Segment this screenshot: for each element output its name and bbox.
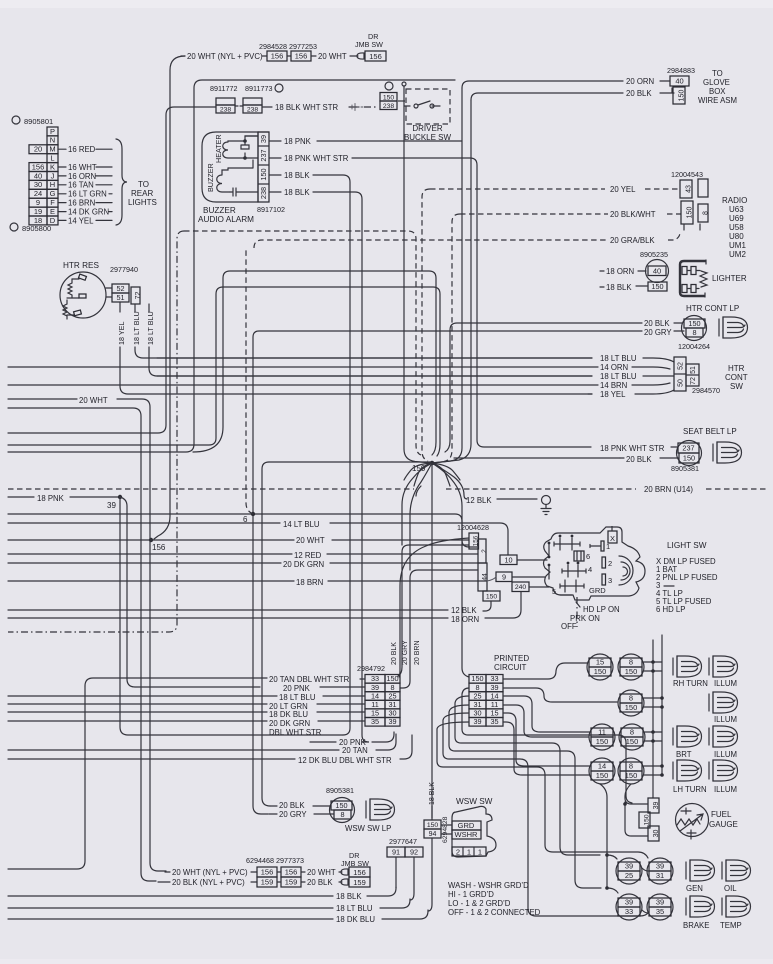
wire 20 ORN to glove box — [462, 81, 623, 88]
lamp socket GEN — [686, 860, 715, 881]
heater coil — [223, 141, 245, 158]
svg-text:HTR RES: HTR RES — [63, 261, 99, 270]
svg-text:12004264: 12004264 — [678, 342, 710, 351]
svg-text:DRIVER: DRIVER — [412, 124, 442, 133]
gauge lamp illum 8/150 row2 — [618, 690, 644, 716]
big harness outline left — [8, 80, 455, 452]
gauge lamp BRT 11/150 — [589, 724, 615, 750]
buzzer audio alarm box — [202, 132, 258, 202]
svg-text:150: 150 — [626, 737, 639, 746]
svg-text:18 PNK: 18 PNK — [284, 137, 312, 146]
lamp socket BRT — [673, 726, 702, 747]
svg-text:K: K — [50, 162, 55, 171]
wire 16 TAN to rear lights — [58, 184, 66, 186]
svg-text:8: 8 — [629, 762, 633, 771]
row 523 14 LT BLU — [8, 522, 280, 524]
light switch lever knob — [619, 556, 633, 585]
svg-text:GEN: GEN — [686, 884, 703, 893]
svg-text:240: 240 — [515, 584, 527, 591]
svg-text:16 ORN: 16 ORN — [68, 172, 96, 181]
svg-text:8: 8 — [629, 658, 633, 667]
svg-text:18 DK BLU: 18 DK BLU — [269, 710, 308, 719]
svg-text:40: 40 — [653, 266, 661, 275]
connector box 8 — [698, 204, 708, 222]
svg-text:39: 39 — [388, 717, 396, 726]
lamp socket ILLUM row2 — [709, 692, 738, 713]
svg-text:14 ORN: 14 ORN — [600, 363, 628, 372]
terminal 5 bar — [560, 580, 584, 595]
connector box 43 — [680, 180, 692, 198]
svg-text:18 LT BLU: 18 LT BLU — [132, 311, 141, 345]
lamp socket BRAKE — [686, 896, 715, 917]
gauge lamp illum 8/150 row1 — [618, 654, 644, 680]
svg-text:156: 156 — [473, 535, 480, 546]
svg-text:8905800: 8905800 — [22, 224, 51, 233]
wires from 91/92 down to bottom rows — [396, 857, 414, 900]
wires 18 YEL / LT BLU from htr res — [119, 302, 121, 312]
svg-text:1: 1 — [478, 848, 482, 857]
svg-text:14 LT BLU: 14 LT BLU — [283, 520, 320, 529]
svg-text:30: 30 — [34, 180, 42, 189]
svg-text:20 BLK/WHT: 20 BLK/WHT — [610, 210, 656, 219]
svg-text:20 BLK: 20 BLK — [279, 801, 305, 810]
ground symbol — [542, 496, 551, 505]
svg-text:CIRCUIT: CIRCUIT — [494, 663, 527, 672]
svg-text:238: 238 — [383, 103, 395, 110]
connector box 52 — [112, 284, 129, 293]
svg-text:18 LT BLU: 18 LT BLU — [600, 372, 637, 381]
svg-text:91: 91 — [392, 848, 400, 857]
svg-text:39: 39 — [625, 862, 633, 871]
svg-text:M: M — [49, 145, 55, 154]
svg-text:20 WHT: 20 WHT — [296, 536, 325, 545]
terminal X — [608, 531, 617, 543]
svg-text:150: 150 — [594, 667, 607, 676]
svg-text:RADIO: RADIO — [722, 196, 747, 205]
wire 20 YEL dashed — [430, 188, 605, 190]
svg-text:8917102: 8917102 — [257, 205, 285, 214]
2 1 1 boxes — [452, 847, 486, 856]
svg-text:94: 94 — [429, 831, 437, 838]
tell-tale TEMP 39/35 — [647, 894, 673, 920]
svg-text:20 BLK: 20 BLK — [626, 89, 652, 98]
svg-text:156: 156 — [353, 868, 366, 877]
svg-text:18 ORN: 18 ORN — [451, 615, 479, 624]
connector box 92 — [405, 847, 423, 857]
connector box 156 in-line — [267, 51, 287, 61]
fuel gauge — [676, 804, 709, 837]
svg-text:8911772: 8911772 — [210, 84, 237, 93]
connector box 39 — [648, 798, 659, 813]
connector box 159 — [281, 877, 301, 887]
svg-text:19: 19 — [34, 207, 42, 216]
wire 20 WHT vertical (top row to 156 junction) — [154, 56, 185, 539]
connector box 8 — [334, 810, 351, 819]
20 YEL / BLKWHT verticals to junction — [422, 189, 430, 461]
svg-text:WSW SW: WSW SW — [456, 797, 493, 806]
svg-text:5: 5 — [552, 587, 556, 596]
svg-text:31: 31 — [656, 871, 664, 880]
wire 16 ORN to rear lights — [58, 175, 66, 177]
svg-text:16 TAN: 16 TAN — [68, 181, 94, 190]
svg-text:18 LT BLU: 18 LT BLU — [336, 904, 373, 913]
svg-text:J: J — [51, 171, 55, 180]
svg-text:156: 156 — [369, 52, 382, 61]
htr cont lp connector circle — [682, 316, 707, 341]
svg-text:150: 150 — [427, 822, 439, 829]
svg-text:ILLUM: ILLUM — [714, 750, 737, 759]
svg-text:39: 39 — [653, 802, 660, 810]
connector box 156 — [281, 867, 301, 877]
terminal 6 — [574, 551, 584, 561]
svg-text:WASH - WSHR GRD’D: WASH - WSHR GRD’D — [448, 881, 529, 890]
wire 16 WHT to rear lights — [58, 166, 66, 168]
svg-text:1: 1 — [467, 848, 471, 857]
svg-text:237: 237 — [259, 149, 268, 161]
svg-text:18 PNK WHT STR: 18 PNK WHT STR — [600, 444, 665, 453]
svg-text:X: X — [610, 534, 615, 543]
svg-text:BUZZER: BUZZER — [206, 163, 215, 192]
lamp feed bus — [653, 635, 662, 798]
svg-text:25: 25 — [625, 871, 633, 880]
wire 14 YEL to rear lights — [58, 219, 66, 221]
svg-text:20 YEL: 20 YEL — [610, 185, 636, 194]
connector 238 (8911772) — [216, 98, 235, 105]
dash wire top row 231 — [184, 231, 421, 455]
connector box 237 — [678, 443, 699, 453]
svg-text:GRD: GRD — [458, 821, 475, 830]
connector box 40 — [670, 76, 689, 86]
svg-text:AUDIO ALARM: AUDIO ALARM — [198, 215, 254, 224]
svg-text:FUEL: FUEL — [711, 810, 732, 819]
svg-text:DBL WHT STR: DBL WHT STR — [269, 728, 322, 737]
verticals 20 ORN / 20 BLK down to junction — [432, 88, 462, 463]
svg-text:2: 2 — [456, 848, 460, 857]
svg-text:20 WHT: 20 WHT — [79, 396, 108, 405]
lamp socket LH TURN — [673, 760, 702, 781]
svg-text:8: 8 — [629, 694, 633, 703]
lighter connector circle — [646, 260, 669, 283]
tell-tale GEN 39/25 — [616, 858, 642, 884]
svg-text:12 DK BLU DBL WHT STR: 12 DK BLU DBL WHT STR — [298, 756, 392, 765]
connector box 150 — [483, 591, 500, 601]
lamp socket WSW SW LP — [366, 799, 395, 820]
terminal 3 — [602, 574, 606, 585]
wire 20 GRA/BLK dashed — [254, 240, 606, 248]
seat belt connector circle — [677, 441, 702, 466]
svg-text:20 WHT (NYL + PVC): 20 WHT (NYL + PVC) — [172, 868, 248, 877]
svg-text:16 LT GRN: 16 LT GRN — [68, 190, 107, 199]
svg-text:150: 150 — [686, 207, 693, 219]
rear lights bulkhead connector — [47, 127, 58, 136]
connector box 240 — [512, 582, 529, 592]
wires pc connector to lamps — [503, 663, 587, 679]
wsw sw body — [452, 806, 496, 857]
svg-text:SW: SW — [730, 382, 743, 391]
connector box 72 — [131, 287, 140, 304]
svg-text:8905381: 8905381 — [671, 464, 699, 473]
svg-text:20 GRA/BLK: 20 GRA/BLK — [610, 236, 655, 245]
lamp socket SEAT BELT LP — [713, 442, 742, 463]
svg-text:SEAT BELT LP: SEAT BELT LP — [683, 427, 737, 436]
svg-text:2977647: 2977647 — [389, 837, 417, 846]
svg-text:18 BLK: 18 BLK — [606, 283, 632, 292]
GRD / WSHR boxes — [452, 821, 481, 830]
svg-text:150: 150 — [683, 454, 695, 463]
svg-text:238: 238 — [247, 107, 259, 114]
svg-text:F: F — [50, 198, 55, 207]
row 563 20 DK GRN — [8, 562, 281, 564]
svg-text:6294828: 6294828 — [442, 816, 449, 843]
connector box 150 — [679, 453, 699, 463]
svg-text:9: 9 — [502, 572, 506, 581]
svg-text:U58: U58 — [729, 223, 744, 232]
svg-text:2977940: 2977940 — [110, 265, 138, 274]
row 540 20 WHT — [8, 539, 294, 541]
svg-text:18 LT BLU: 18 LT BLU — [279, 693, 316, 702]
svg-text:35: 35 — [490, 717, 498, 726]
svg-text:159: 159 — [353, 878, 366, 887]
svg-text:BOX: BOX — [709, 87, 726, 96]
wires to 39/150/30 — [625, 784, 648, 836]
svg-text:18 YEL: 18 YEL — [117, 322, 126, 345]
svg-text:156: 156 — [261, 868, 274, 877]
connector box 150 — [424, 820, 441, 829]
row 408 — [8, 408, 156, 881]
svg-text:39: 39 — [473, 717, 481, 726]
svg-text:24: 24 — [34, 189, 42, 198]
svg-text:20 ORN: 20 ORN — [626, 77, 654, 86]
wire to lighter loop (row 445 / 287) — [8, 287, 440, 456]
svg-text:18 DK BLU: 18 DK BLU — [336, 915, 375, 924]
connector 8905801 terminal — [12, 116, 20, 124]
buzzer coil — [217, 168, 230, 192]
svg-text:20 BLK: 20 BLK — [644, 319, 670, 328]
svg-text:18 YEL: 18 YEL — [600, 390, 626, 399]
lighter element — [680, 261, 706, 296]
printed circuit connector — [469, 675, 486, 684]
svg-text:LIGHT SW: LIGHT SW — [667, 541, 707, 550]
svg-text:ILLUM: ILLUM — [714, 679, 737, 688]
svg-text:6294468 2977373: 6294468 2977373 — [246, 856, 304, 865]
dash-dot wire x=177 — [8, 231, 184, 632]
svg-text:43: 43 — [685, 185, 692, 193]
svg-text:52: 52 — [116, 284, 124, 293]
wsw sw lp connector circle — [330, 798, 355, 823]
row 554 12 RED — [8, 553, 292, 555]
gauge lamp illum 8/150 row4 — [618, 758, 644, 784]
svg-text:20 BLK: 20 BLK — [626, 455, 652, 464]
svg-text:REAR: REAR — [131, 189, 153, 198]
svg-text:15: 15 — [596, 658, 604, 667]
lamp socket OIL — [722, 860, 751, 881]
svg-text:2984570: 2984570 — [692, 386, 720, 395]
svg-text:18 ORN: 18 ORN — [606, 267, 634, 276]
svg-text:2984792: 2984792 — [357, 664, 385, 673]
buzzer row wires — [269, 140, 281, 142]
svg-text:H: H — [50, 180, 55, 189]
connector box 156 in-line — [291, 51, 311, 61]
svg-text:2: 2 — [608, 559, 612, 568]
svg-text:LO - 1 & 2 GRD’D: LO - 1 & 2 GRD’D — [448, 899, 511, 908]
svg-text:14 DK GRN: 14 DK GRN — [68, 207, 109, 216]
svg-text:8905235: 8905235 — [640, 250, 668, 259]
svg-text:LH TURN: LH TURN — [673, 785, 707, 794]
svg-text:159: 159 — [261, 878, 274, 887]
row 514 with junction 6 — [8, 514, 477, 547]
svg-text:40: 40 — [675, 77, 683, 86]
svg-text:2984883: 2984883 — [667, 66, 695, 75]
plug to driver buckle — [352, 104, 363, 111]
svg-text:20 BLK (NYL + PVC): 20 BLK (NYL + PVC) — [172, 878, 245, 887]
svg-text:156: 156 — [32, 162, 45, 171]
connector box 156 — [469, 533, 479, 549]
connector box 44 — [478, 563, 487, 591]
buzzer connector column 39/237/150/238 — [258, 132, 269, 202]
svg-text:20 BLK: 20 BLK — [391, 642, 398, 665]
svg-text:10: 10 — [504, 555, 512, 564]
light switch body — [544, 527, 646, 600]
svg-text:UM1: UM1 — [729, 241, 746, 250]
svg-text:20 DK GRN: 20 DK GRN — [283, 560, 324, 569]
svg-text:2 PNL LP FUSED: 2 PNL LP FUSED — [656, 573, 718, 582]
wire 16 LT GRN to rear lights — [58, 193, 66, 195]
svg-text:WIRE ASM: WIRE ASM — [698, 96, 737, 105]
svg-text:40: 40 — [34, 171, 42, 180]
dashed main row 489 — [8, 488, 636, 490]
wire 18 BLK WHT STR left anchor vertical — [8, 107, 216, 433]
svg-text:12 BLK: 12 BLK — [466, 496, 492, 505]
svg-text:TO: TO — [712, 69, 723, 78]
connector box 10 — [500, 555, 517, 565]
connector box 150 — [673, 87, 685, 104]
wire 14 DK GRN to rear lights — [58, 211, 66, 213]
wire 18 BLK WHT STR — [262, 106, 272, 108]
svg-text:OFF: OFF — [561, 622, 577, 631]
connector 2984792 — [365, 675, 385, 684]
connector box 150 — [639, 812, 650, 828]
svg-text:150: 150 — [625, 703, 638, 712]
gauge lamp LH TURN 14/150 — [589, 758, 615, 784]
svg-text:18 BLK: 18 BLK — [284, 188, 310, 197]
connector box 150 — [648, 282, 667, 291]
wire 12 BLK to ground — [416, 463, 467, 499]
connector box 8 — [686, 328, 703, 337]
svg-text:HEATER: HEATER — [214, 134, 223, 163]
svg-text:20 GRY: 20 GRY — [279, 810, 307, 819]
plug DR JMB SW 156 — [357, 53, 364, 59]
bottom row 18 LT BLU — [8, 907, 333, 909]
row 581 18 BRN — [8, 580, 294, 582]
svg-text:6 HD LP: 6 HD LP — [656, 605, 685, 614]
svg-text:TEMP: TEMP — [720, 921, 742, 930]
pc west wires down to tell-tales — [462, 688, 632, 803]
svg-text:14: 14 — [598, 762, 606, 771]
wire 18 BLK buzzer row4 — [269, 191, 281, 193]
svg-text:20 WHT: 20 WHT — [318, 52, 347, 61]
svg-text:18 BLK WHT STR: 18 BLK WHT STR — [275, 103, 338, 112]
lamp socket RH TURN — [673, 656, 702, 677]
connector box 150 — [684, 319, 705, 328]
svg-text:92: 92 — [410, 848, 418, 857]
svg-text:16 RED: 16 RED — [68, 145, 96, 154]
row 618 18 ORN — [8, 617, 448, 619]
svg-text:20 BRN (U14): 20 BRN (U14) — [644, 485, 693, 494]
HD LP ON / PRK ON / OFF labels — [576, 597, 578, 627]
switch bar mid — [562, 565, 586, 577]
svg-text:30: 30 — [653, 830, 660, 838]
svg-text:HTR: HTR — [728, 364, 745, 373]
svg-text:2984528 2977253: 2984528 2977253 — [259, 42, 317, 51]
svg-text:156: 156 — [285, 868, 298, 877]
bottom 20 BLK row — [158, 881, 170, 883]
svg-text:BRT: BRT — [676, 750, 692, 759]
svg-text:18 BLK: 18 BLK — [336, 892, 362, 901]
svg-text:39: 39 — [656, 862, 664, 871]
svg-text:159: 159 — [285, 878, 298, 887]
svg-text:ILLUM: ILLUM — [714, 715, 737, 724]
svg-text:HTR CONT LP: HTR CONT LP — [686, 304, 739, 313]
svg-text:9: 9 — [36, 198, 40, 207]
svg-text:WSW SW LP: WSW SW LP — [345, 824, 391, 833]
svg-text:14 BRN: 14 BRN — [600, 381, 627, 390]
svg-text:20 GRY: 20 GRY — [644, 328, 672, 337]
svg-text:150: 150 — [486, 593, 498, 600]
svg-text:35: 35 — [371, 717, 379, 726]
svg-text:E: E — [50, 207, 55, 216]
svg-text:CONT: CONT — [725, 373, 748, 382]
svg-text:ILLUM: ILLUM — [714, 785, 737, 794]
wire 18 PNK row — [8, 496, 34, 498]
svg-text:JMB SW: JMB SW — [355, 40, 383, 49]
svg-text:8: 8 — [702, 211, 709, 215]
svg-text:4: 4 — [588, 565, 592, 574]
bottom 20 WHT row — [165, 871, 170, 873]
svg-text:18 BLK: 18 BLK — [429, 782, 436, 805]
gauge lamp illum 8/150 row3 — [619, 724, 645, 750]
svg-text:51: 51 — [690, 366, 697, 374]
connector box 159 — [257, 877, 277, 887]
svg-text:OFF - 1 & 2 CONNECTED: OFF - 1 & 2 CONNECTED — [448, 908, 541, 917]
svg-text:UM2: UM2 — [729, 250, 746, 259]
svg-text:16 WHT: 16 WHT — [68, 163, 97, 172]
svg-text:20 TAN DBL WHT STR: 20 TAN DBL WHT STR — [269, 675, 350, 684]
svg-text:2: 2 — [481, 549, 488, 553]
svg-text:GAUGE: GAUGE — [709, 820, 738, 829]
wire 16 BRN to rear lights — [58, 202, 66, 204]
svg-text:39: 39 — [656, 898, 664, 907]
wire 16 RED to rear lights — [58, 148, 66, 150]
svg-text:150: 150 — [644, 814, 651, 825]
svg-text:18 BLK: 18 BLK — [284, 171, 310, 180]
svg-text:20 GRY: 20 GRY — [402, 640, 409, 665]
svg-text:18 BRN: 18 BRN — [296, 578, 323, 587]
svg-text:156: 156 — [271, 52, 284, 61]
wire 20 BLK/WHT dashed — [460, 213, 608, 215]
svg-text:150: 150 — [651, 282, 663, 291]
svg-text:150: 150 — [335, 801, 347, 810]
connector box 91 — [387, 847, 405, 857]
svg-text:51: 51 — [116, 293, 124, 302]
wire 20 WHT left — [8, 398, 77, 400]
svg-text:TO: TO — [138, 180, 149, 189]
svg-text:8905381: 8905381 — [326, 786, 354, 795]
svg-text:PRINTED: PRINTED — [494, 654, 529, 663]
bottom row 18 DK BLU — [8, 918, 333, 920]
svg-text:20: 20 — [34, 145, 42, 154]
feed wires to tell tales — [600, 784, 607, 888]
svg-text:20 WHT (NYL + PVC): 20 WHT (NYL + PVC) — [187, 52, 263, 61]
